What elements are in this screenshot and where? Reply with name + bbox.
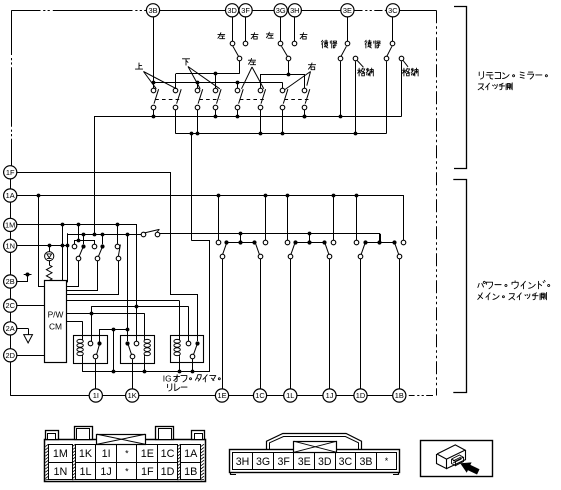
svg-text:3C: 3C bbox=[339, 456, 353, 468]
svg-text:1B: 1B bbox=[395, 391, 404, 400]
svg-text:2C: 2C bbox=[5, 301, 15, 310]
svg-text:3H: 3H bbox=[236, 456, 250, 468]
svg-text:3F: 3F bbox=[241, 6, 250, 15]
svg-text:1J: 1J bbox=[326, 391, 334, 400]
svg-text:3F: 3F bbox=[277, 456, 290, 468]
svg-text:1M: 1M bbox=[5, 221, 15, 230]
svg-text:2A: 2A bbox=[6, 324, 15, 333]
svg-text:1F: 1F bbox=[6, 168, 15, 177]
svg-text:*: * bbox=[125, 467, 129, 477]
svg-text:1D: 1D bbox=[356, 391, 365, 400]
svg-text:1E: 1E bbox=[141, 448, 154, 460]
svg-text:1K: 1K bbox=[128, 391, 137, 400]
svg-text:1F: 1F bbox=[141, 466, 154, 478]
svg-text:2B: 2B bbox=[6, 277, 15, 286]
svg-text:3E: 3E bbox=[343, 6, 352, 15]
svg-text:3D: 3D bbox=[227, 6, 236, 15]
svg-text:2D: 2D bbox=[5, 351, 14, 360]
svg-text:1C: 1C bbox=[161, 448, 175, 460]
svg-text:1L: 1L bbox=[79, 466, 91, 478]
svg-text:CM: CM bbox=[49, 322, 62, 332]
svg-text:3B: 3B bbox=[359, 456, 372, 468]
svg-text:3C: 3C bbox=[388, 6, 398, 15]
svg-text:3E: 3E bbox=[298, 456, 311, 468]
svg-text:1E: 1E bbox=[217, 391, 226, 400]
svg-text:1I: 1I bbox=[93, 391, 99, 400]
svg-text:*: * bbox=[125, 449, 129, 459]
svg-text:3G: 3G bbox=[256, 456, 270, 468]
svg-text:1M: 1M bbox=[53, 448, 68, 460]
svg-text:3D: 3D bbox=[318, 456, 332, 468]
svg-text:3B: 3B bbox=[148, 6, 157, 15]
svg-text:1I: 1I bbox=[102, 448, 111, 460]
svg-text:1N: 1N bbox=[53, 466, 67, 478]
svg-text:1K: 1K bbox=[79, 448, 93, 460]
svg-text:1A: 1A bbox=[6, 191, 15, 200]
svg-text:3G: 3G bbox=[276, 6, 286, 15]
svg-text:1D: 1D bbox=[161, 466, 175, 478]
svg-text:P/W: P/W bbox=[48, 310, 64, 320]
svg-text:1B: 1B bbox=[184, 466, 197, 478]
svg-text:1N: 1N bbox=[5, 241, 14, 250]
svg-text:1A: 1A bbox=[184, 448, 198, 460]
svg-text:1C: 1C bbox=[255, 391, 265, 400]
svg-text:1J: 1J bbox=[100, 466, 111, 478]
svg-text:*: * bbox=[385, 456, 389, 466]
svg-text:IG: IG bbox=[163, 374, 172, 384]
svg-text:3H: 3H bbox=[290, 6, 299, 15]
svg-text:1L: 1L bbox=[286, 391, 294, 400]
